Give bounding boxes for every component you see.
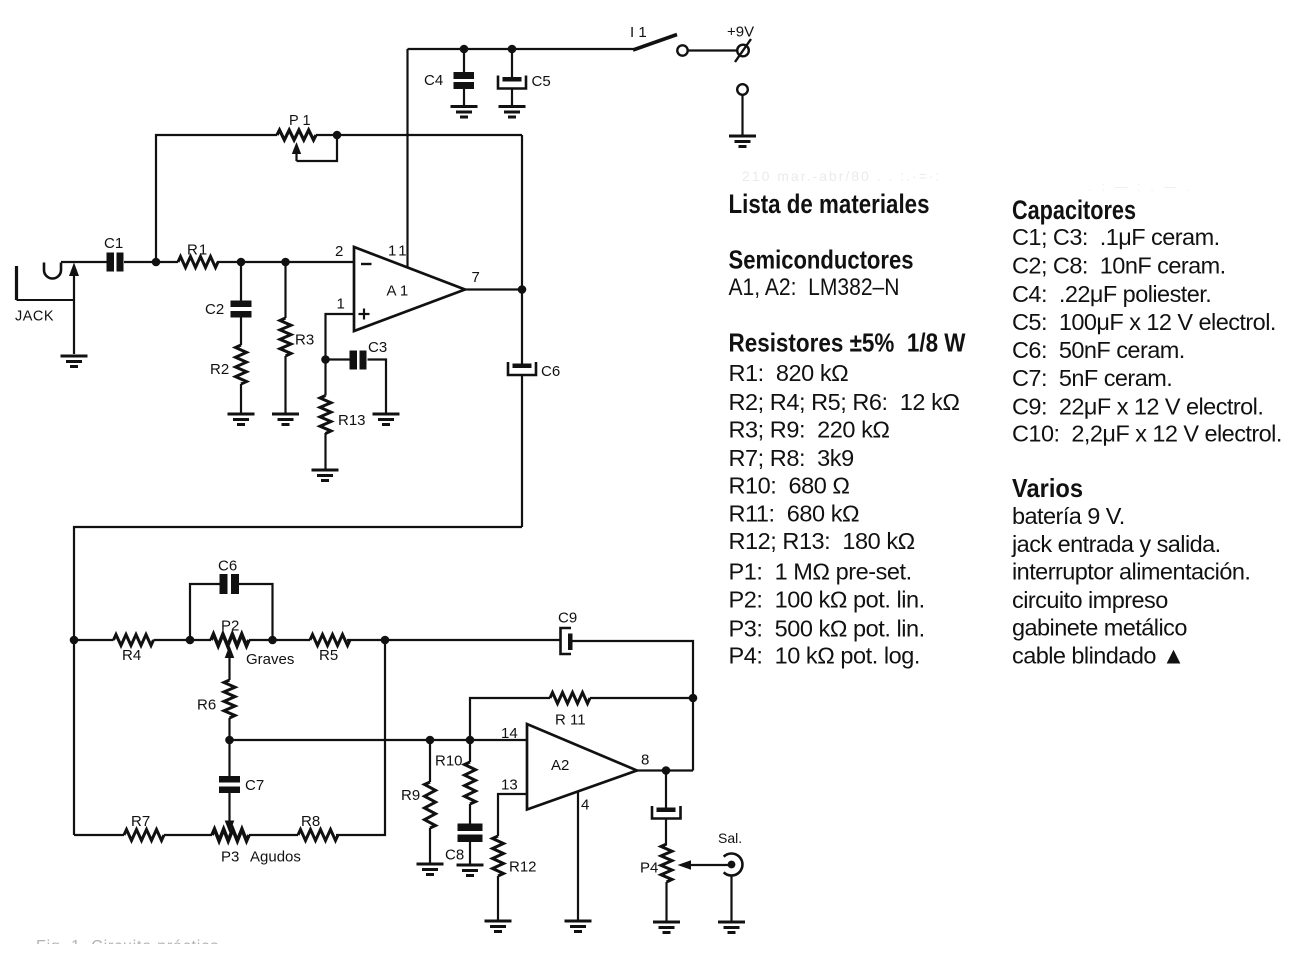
svg-text:Resistores ±5% 1/8 W: Resistores ±5% 1/8 W [729,328,966,358]
wire C4 to ground [463,89,465,107]
svg-text:A2: A2 [551,757,569,774]
input jack plug symbol [44,263,61,279]
node junction C1/P1 [152,258,161,267]
wire row2 start [74,834,124,836]
svg-text:C10: 2,2μF x 12 V electrol.: C10: 2,2μF x 12 V electrol. [1012,421,1282,447]
wire C1 to R1 [124,261,178,263]
node P1 wiper junction [333,131,342,140]
text varios list line [1012,559,1250,585]
node C6 right junction [268,636,277,645]
ground (R2) [228,414,255,425]
label C2 [205,301,224,318]
wire row2 to right vertical [336,640,385,835]
svg-text:C5: 100μF x 12 V electrol.: C5: 100μF x 12 V electrol. [1012,309,1276,335]
label R8 [301,813,320,830]
svg-text:R 11: R 11 [555,712,586,729]
wire R13 to ground [324,433,326,470]
svg-text:C4: C4 [424,72,443,89]
ground (Sal) [718,922,745,933]
svg-text:R1: 820 kΩ: R1: 820 kΩ [729,360,849,386]
svg-text:Agudos: Agudos [250,849,301,866]
heading Capacitores [1012,195,1136,225]
svg-text:Capacitores: Capacitores [1012,195,1136,225]
wire switch to +9V [688,49,737,51]
ground (R12) [485,921,512,932]
capacitor C6 (bass bypass) [190,574,273,640]
node pin1 junction [321,355,330,364]
label R4 [122,647,141,664]
scan smudge above right column [1088,179,1193,194]
text capacitor list line [1012,224,1220,250]
wire A1 output [465,288,522,290]
svg-text:C8: C8 [445,847,464,864]
resistor R1 [178,257,218,268]
svg-text:R11: 680 kΩ: R11: 680 kΩ [729,501,860,527]
resistor R6 [224,680,235,718]
node R9 junction [426,736,435,745]
label R13 [338,412,366,429]
text resistor list line [729,445,854,471]
svg-text:C7: 5nF ceram.: C7: 5nF ceram. [1012,365,1172,391]
text resistor list line [729,473,850,499]
+9V terminal [735,39,751,62]
node junction R3 [281,258,290,267]
svg-text:R10: R10 [435,753,463,770]
svg-text:C7: C7 [245,777,264,794]
pin label 4 [581,797,589,814]
wire Sal to ground [730,876,732,923]
svg-text:P4: P4 [640,860,658,877]
svg-text:I 1: I 1 [630,24,647,41]
label A1 [387,283,409,300]
text varios list line [1012,587,1168,613]
text capacitor list line [1012,281,1211,307]
ground (C4) [451,107,478,118]
svg-text:R5: R5 [319,647,338,664]
wire output to C6 [521,290,523,365]
ground (C3) [373,414,400,425]
label C8 [445,847,464,864]
node R10 junction [466,736,475,745]
switch I1 lever [633,35,677,51]
wire row1 start [74,639,114,641]
text capacitor list line [1012,309,1276,335]
svg-text:R7: R7 [131,813,150,830]
P4 wiper arrow [678,860,732,870]
scan smudge above left column [742,168,941,184]
potentiometer P4 [661,844,672,882]
ground (jack) [61,356,88,367]
capacitor C9 [561,628,573,654]
ground (pin4) [565,921,592,932]
heading Resistores [729,328,966,358]
label Sal. [718,830,742,846]
svg-text:P3: 500 kΩ pot. lin.: P3: 500 kΩ pot. lin. [729,616,925,642]
svg-text:R4: R4 [122,647,141,664]
label C3 [368,339,387,356]
label C4 [424,72,443,89]
P3 wiper arrow [225,821,235,834]
label R11 [555,712,586,729]
potentiometer P3 [212,829,249,841]
wire A2 pin13 [498,794,527,836]
ground (R13) [312,470,339,481]
jack sleeve stub [17,266,75,300]
wire R11 branch up [470,698,550,740]
svg-text:R7; R8: 3k9: R7; R8: 3k9 [729,445,854,471]
resistor R13 [320,396,331,434]
node C4 junction [460,45,469,54]
label C5 [532,73,551,90]
wire C2 to R2 [240,317,242,345]
wire R6 to node [228,718,230,740]
text capacitor list line [1012,253,1226,279]
wire C9 to corner [573,641,694,771]
node A1 output junction [518,285,527,294]
svg-text:210 mar.-abr/80 . . :.·=·:: 210 mar.-abr/80 . . :.·=·: [742,168,941,184]
capacitor C3 [350,351,367,370]
op-amp A2 [527,724,637,810]
label R10 [435,753,463,770]
svg-text:Varios: Varios [1012,473,1083,503]
wire R10 to C8 [469,804,471,824]
svg-text:JACK: JACK [15,309,54,325]
node junction R1/C2 [237,258,246,267]
wire to R3 [284,262,286,318]
wire to R10 [469,740,471,762]
text resistor list line [729,417,890,443]
text varios list line [1012,615,1187,641]
wire A2 output [637,769,693,771]
capacitor C6 (coupling) [508,362,536,375]
svg-text:C9: C9 [558,610,577,627]
wire C5 to ground [511,89,513,107]
wire P3 to R8 [249,834,298,836]
svg-text:Sal.: Sal. [718,830,742,846]
svg-text:C5: C5 [532,73,551,90]
svg-text:7: 7 [472,269,480,286]
resistor R2 [236,345,247,384]
label C6 coupling [541,363,560,380]
resistor R3 [280,318,291,356]
text resistor list line [729,360,849,386]
svg-text:P3: P3 [221,849,239,866]
svg-text:2: 2 [335,243,343,260]
node R11/C9 junction [689,694,698,703]
text resistor list line [729,528,915,554]
P3 wiper wire [228,793,230,822]
wire C8 to ground [469,842,471,865]
svg-text:11: 11 [388,243,410,260]
label A2 [551,757,569,774]
svg-text:P4: 10 kΩ pot. log.: P4: 10 kΩ pot. log. [729,643,920,669]
svg-text:batería 9 V.: batería 9 V. [1012,503,1125,529]
pin label 1 [337,296,345,313]
capacitor C8 [458,824,483,843]
svg-text:gabinete metálico: gabinete metálico [1012,615,1187,641]
wire to C3 [326,358,350,360]
svg-text:C2; C8: 10nF ceram.: C2; C8: 10nF ceram. [1012,253,1226,279]
capacitor C7 [219,776,240,793]
text capacitor list line [1012,394,1263,420]
output jack Sal [724,854,743,876]
svg-text:R1: R1 [187,242,208,259]
wire C3 to ground leg [368,360,387,415]
wire to C7 [228,740,230,777]
pin label 8 [641,752,649,769]
label C7 [245,777,264,794]
P2 wiper arrow [225,646,235,681]
svg-text:1: 1 [337,296,345,313]
svg-text:P 1: P 1 [289,113,311,129]
svg-text:. : — : . — .: . : — : . — . [1088,179,1193,194]
svg-text:C6: C6 [218,558,237,575]
svg-text:R3: R3 [295,332,314,349]
svg-text:P2: 100 kΩ pot. lin.: P2: 100 kΩ pot. lin. [729,587,925,613]
wire A2 pin4 [577,791,579,921]
svg-text:C1; C3: .1μF ceram.: C1; C3: .1μF ceram. [1012,224,1220,250]
svg-text:4: 4 [581,797,589,814]
ground (C5) [499,107,526,118]
text resistor list line [729,587,925,613]
ground (C8) [457,865,484,876]
ground (R9) [417,864,444,875]
wire R5 to C9 row [347,639,560,641]
label Graves [246,651,294,668]
wire R11 to right vertical [590,697,693,699]
wire R1 to A1 pin2 [217,261,354,263]
capacitor C10 [652,806,681,819]
wire P1 left leg [156,135,277,262]
wire R12 to ground [497,876,499,921]
svg-text:A1, A2: LM382–N: A1, A2: LM382–N [729,274,900,301]
label R6 [197,697,216,714]
label P3 [221,849,239,866]
ground (R3) [272,414,299,425]
wire C10 to P4 [665,819,667,846]
heading Semiconductores [729,245,914,275]
resistor R9 [425,782,436,828]
svg-text:C6: C6 [541,363,560,380]
wire input row [61,261,107,263]
label C1 [104,235,123,252]
capacitor C5 [498,76,526,89]
wire supply rail [408,48,634,50]
wire A1 pin1 [326,314,355,360]
wire P1 to C6 column [316,134,522,136]
resistor R12 [493,836,504,876]
resistor R11 [550,693,590,704]
label R2 [210,361,229,378]
text capacitor list line [1012,337,1185,363]
text capacitor list line [1012,421,1282,447]
text resistor list line [729,389,960,415]
heading Lista de materiales [729,189,930,219]
svg-text:C9: 22μF x 12 V electrol.: C9: 22μF x 12 V electrol. [1012,394,1263,420]
pin label 14 [501,725,518,742]
svg-text:R3; R9: 220 kΩ: R3; R9: 220 kΩ [729,417,890,443]
svg-text:R9: R9 [401,787,420,804]
text resistor list line [729,501,860,527]
A1 plus sign [359,309,370,320]
svg-text:R8: R8 [301,813,320,830]
svg-text:interruptor alimentación.: interruptor alimentación. [1012,559,1250,585]
capacitor C2 [231,301,252,318]
svg-text:circuito impreso: circuito impreso [1012,587,1168,613]
svg-text:Semiconductores: Semiconductores [729,245,914,275]
svg-text:C2: C2 [205,301,224,318]
pin label 7 [472,269,480,286]
node A2 output junction [662,766,671,775]
svg-text:R13: R13 [338,412,366,429]
wire to C4 [463,49,465,73]
label R1 [187,242,208,259]
switch I1 contact [677,45,687,55]
svg-text:P2: P2 [221,618,239,635]
wire R4 to P2 [154,639,212,641]
text varios list line [1012,643,1185,669]
svg-text:8: 8 [641,752,649,769]
label C9 [558,610,577,627]
text varios list line [1011,531,1221,557]
svg-text:R12: R12 [509,859,537,876]
svg-text:+9V: +9V [727,24,754,41]
svg-text:Graves: Graves [246,651,294,668]
wire P4 to ground [665,882,667,922]
label R5 [319,647,338,664]
svg-text:R2: R2 [210,361,229,378]
svg-text:A 1: A 1 [387,283,409,300]
node tone/C9 junction [381,636,390,645]
label C6 bypass [218,558,237,575]
P1 wiper arrow [292,142,301,161]
wire C6 down [521,375,523,527]
node tone mid junction [225,736,234,745]
svg-text:jack entrada y salida.: jack entrada y salida. [1011,531,1221,557]
label P4 [640,860,658,877]
resistor R8 [298,830,338,841]
text semiconductores line [729,274,900,301]
ground (battery) [729,136,756,147]
wire to R9 [429,740,431,782]
label R9 [401,787,420,804]
wire R9 to ground [429,828,431,864]
ground (P4) [653,922,680,933]
svg-text:cable blindado ▲: cable blindado ▲ [1012,643,1185,669]
wire to C10 [665,771,667,809]
text resistor list line [729,559,912,585]
potentiometer P2 [211,634,249,646]
potentiometer P1 [277,130,316,140]
heading Varios [1012,473,1083,503]
P1 wiper wire [297,135,338,161]
svg-text:P1: 1 MΩ pre-set.: P1: 1 MΩ pre-set. [729,559,912,585]
label +9V [727,24,754,41]
svg-text:R10: 680 Ω: R10: 680 Ω [729,473,850,499]
label P2 [221,618,239,635]
battery return terminal [737,84,748,95]
text resistor list line [729,643,920,669]
capacitor C1 [107,253,124,272]
A1 minus sign [361,263,372,265]
op-amp A1 [354,247,465,331]
resistor R4 [114,635,154,646]
svg-text:R12; R13: 180 kΩ: R12; R13: 180 kΩ [729,528,915,554]
svg-text:C1: C1 [104,235,123,252]
svg-text:C3: C3 [368,339,387,356]
node tone row left [70,636,79,645]
label I1 [630,24,647,41]
jack ground arrow [69,263,79,355]
pin label 11 [388,243,410,260]
wire pin1 to R13 [324,360,326,396]
svg-text:14: 14 [501,725,518,742]
wire terminal to ground [741,95,743,136]
node C5 junction [508,45,517,54]
label P1 [289,113,311,129]
wire P2 to R5 [249,639,310,641]
svg-text:Lista de materiales: Lista de materiales [729,189,930,219]
label R7 [131,813,150,830]
wire pin14 row [230,739,528,741]
wire across to tone section [74,527,522,640]
wire R3 to ground [284,356,286,414]
text capacitor list line [1012,365,1172,391]
text varios list line [1012,503,1125,529]
label R12 [509,859,537,876]
svg-text:13: 13 [501,777,518,794]
pin label 13 [501,777,518,794]
resistor R7 [124,830,164,841]
text resistor list line [729,616,925,642]
wire to C2 [240,262,242,301]
svg-text:C6: 50nF ceram.: C6: 50nF ceram. [1012,337,1185,363]
wire R7 to P3 [164,834,212,836]
svg-text:C4: .22μF poliester.: C4: .22μF poliester. [1012,281,1211,307]
wire R2 to ground [240,384,242,414]
node C6 left junction [186,636,195,645]
pin label 2 [335,243,343,260]
wire A1 pin11 [406,49,408,267]
svg-text:R2; R4; R5; R6: 12 kΩ: R2; R4; R5; R6: 12 kΩ [729,389,960,415]
label R3 [295,332,314,349]
caption fragment Fig. 1 [0,938,320,962]
wire output column upper [521,135,523,290]
wire to C5 [511,49,513,78]
wire left vertical [73,640,75,835]
resistor R10 [465,762,476,804]
resistor R5 [310,635,350,646]
capacitor C4 [454,72,475,89]
label Agudos [250,849,301,866]
svg-text:R6: R6 [197,697,216,714]
label JACK [15,309,54,325]
